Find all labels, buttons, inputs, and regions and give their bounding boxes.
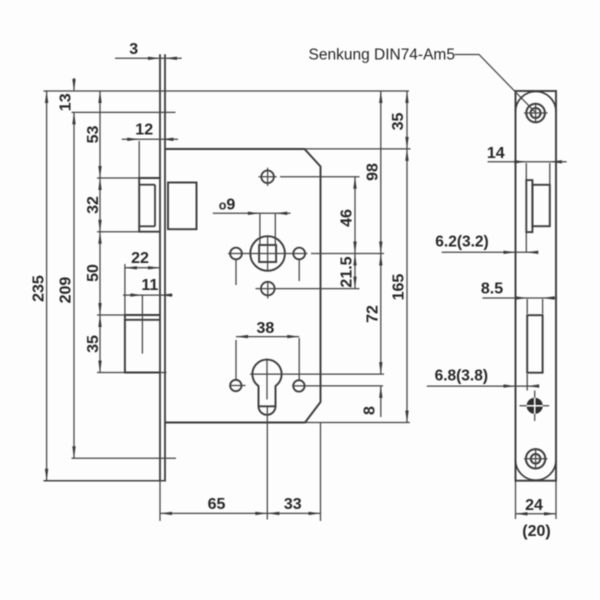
svg-text:33: 33 [284,496,302,513]
38 lower left dashed extension [235,340,237,379]
svg-text:38: 38 [257,320,275,337]
side middle hole v tick [534,391,536,422]
deadbolt outer rect [125,315,160,373]
case bottom extension right [304,422,410,424]
svg-text:98: 98 [365,163,382,181]
dim line o9 [213,212,291,214]
deadbolt top extension [97,314,125,316]
arrows 11 outside [130,293,142,296]
side bottom countersunk hole inner [531,454,541,464]
svg-text:35: 35 [390,113,407,131]
22 left extension [124,264,126,315]
side right edge extension below [555,481,557,519]
arrows 235 [45,91,48,103]
svg-text:32: 32 [85,196,102,214]
chain dim line left [99,91,101,373]
svg-text:35: 35 [85,335,102,353]
top hole extension right [280,176,360,178]
euro cylinder stem chord [259,405,276,407]
lower right hole h tick and extension [292,385,383,387]
case top extension right [304,148,411,150]
top fixing hole circle [261,171,274,184]
deadbolt bevel line [125,319,160,321]
dim line 98-72 [380,91,382,374]
top hole h tick [259,176,277,178]
deadbolt centerline [141,295,143,354]
svg-text:72: 72 [365,305,382,323]
side view top arc [516,91,557,111]
svg-text:o9: o9 [219,197,236,214]
dim line 38 [236,336,299,338]
38 lower right dashed extension [298,338,300,380]
209 bottom extension [72,457,177,459]
side middle screw hole disc [527,398,543,414]
side 6.8 ext [526,374,528,391]
dim line 235 [46,91,48,481]
latch top extension [97,177,139,179]
side 8.5 right ext [542,299,544,314]
svg-text:65: 65 [208,496,226,513]
arrows 46 [353,177,356,189]
side 8.5 dim line [482,297,557,299]
leader line Senkung [455,55,536,113]
arrows 22 inside [125,266,137,269]
arrows 12 outside [127,138,139,141]
latch head outer rect [139,178,160,232]
svg-text:21.5: 21.5 [339,256,356,287]
arrows 8.5 outside [515,296,527,299]
arrow 13/209 shared up [72,112,75,124]
arrows 65-33 [160,512,172,515]
arrows 72 [379,254,382,266]
latch bottom extension [97,231,139,233]
svg-text:Senkung DIN74-Am5: Senkung DIN74-Am5 [309,47,455,64]
side top countersunk hole outer [526,104,545,123]
dim line 35-165 right [406,91,408,423]
arrows 14 outside [514,160,526,163]
chain arrows x100 [98,91,101,103]
deadbolt bottom extension right [160,372,167,374]
follower v centerline [267,236,269,271]
svg-text:165: 165 [391,274,408,301]
svg-text:209: 209 [58,277,75,304]
side latch body [532,185,549,226]
lock case outline [165,149,321,423]
38 upper right dashed extension [298,260,300,281]
upper right side hole [293,248,305,260]
dim line 46-21.5 [354,177,356,289]
svg-text:235: 235 [31,275,48,302]
arrows 3 outside [148,57,160,60]
axis extension to bottom dim [266,406,268,520]
arrows 21.5 [353,254,356,266]
o9 left extension [259,213,261,245]
case right extension below [320,423,322,522]
svg-text:8: 8 [362,406,379,415]
lower left hole h tick [230,385,246,387]
svg-text:14: 14 [487,145,505,162]
lower hole h tick and extension [256,288,360,290]
side view bottom arc [516,460,557,480]
dim line 11 [123,294,173,296]
upper left side hole [230,248,242,260]
side 6.2 dim line [442,251,538,253]
dim line 3 [115,57,182,59]
follower h centerline [228,253,308,255]
arrows 165 [405,149,408,161]
side deadbolt rect [527,315,542,373]
arrow 209 bottom [72,446,75,458]
euro v centerline [266,359,268,400]
deadbolt bottom extension left [97,372,125,374]
arrow 13 top outside [72,79,75,91]
side top hole v tick [535,104,537,122]
side 24 dim line [516,513,557,515]
latch head bevel top [139,184,155,186]
euro center extension [250,373,384,375]
euro cylinder keyhole profile [252,360,281,415]
top extension line y91 [44,90,410,92]
svg-text:6.8(3.8): 6.8(3.8) [435,368,488,385]
svg-text:6.2(3.2): 6.2(3.2) [435,234,488,251]
bottom dim line 65-33 [160,512,321,514]
12 left extension [138,141,140,177]
arrows 6.8 outside [504,384,516,387]
side middle hole h tick [520,405,550,407]
svg-text:50: 50 [85,264,102,282]
side top hole h tick [524,112,548,114]
o9 right extension [274,213,276,245]
svg-text:24: 24 [525,497,543,514]
side 14 dim line [488,161,567,163]
side left edge extension below [515,481,517,519]
dim line 209 [73,112,75,458]
lower hole v tick [267,281,269,299]
13 outer arrow shaft above [73,78,75,91]
svg-text:3: 3 [129,41,138,58]
side middle screw hole white cross [527,405,543,407]
svg-text:8.5: 8.5 [481,281,503,298]
svg-text:46: 46 [339,209,356,227]
faceplate extension below [159,481,161,521]
latch head bevel vertical [154,185,156,227]
follower extension right [311,253,384,255]
lower left side hole [230,380,241,391]
arrows o9 outside [248,212,260,215]
latch body behind faceplate [168,183,197,230]
side top countersunk hole inner [531,108,541,118]
follower hub circle [250,236,285,271]
svg-text:53: 53 [85,126,102,144]
dim line 12 [122,138,178,140]
lower fixing hole circle [261,282,275,296]
faceplate bottom extension [44,480,167,482]
top hole v tick [267,168,269,186]
faceplate front view left edge [159,54,161,481]
lower right side hole [293,380,304,391]
svg-text:22: 22 [131,250,149,267]
arrows 35 right [405,91,408,103]
faceplate front view right edge [164,54,166,481]
svg-text:13: 13 [58,93,75,111]
side ext x526.3 [525,163,527,252]
dim line 22 [125,267,160,269]
side bottom hole h tick [524,458,548,460]
follower square [259,245,276,262]
side 8.5 left ext [526,299,528,314]
side 6.8 dim line [427,385,538,387]
extension line y112.4 for 13 [72,111,176,113]
side ext x549.8 [549,163,551,185]
arrows 98 [379,91,382,103]
svg-text:(20): (20) [522,523,550,540]
arrows 24 inside [516,512,528,515]
latch head bevel bottom [139,225,155,227]
svg-text:11: 11 [141,277,158,294]
svg-text:12: 12 [135,122,153,139]
arrow 8 outside [379,386,382,398]
38 upper left dashed extension [235,260,237,285]
arrows 6.2 outside [504,251,516,254]
side bottom hole v tick [535,448,537,470]
arrows 38 inside [236,335,248,338]
8 outer arrow shaft below [380,386,382,417]
side latch flange [526,180,532,232]
side view plate rect [516,91,557,481]
side bottom countersunk hole outer [526,449,545,468]
